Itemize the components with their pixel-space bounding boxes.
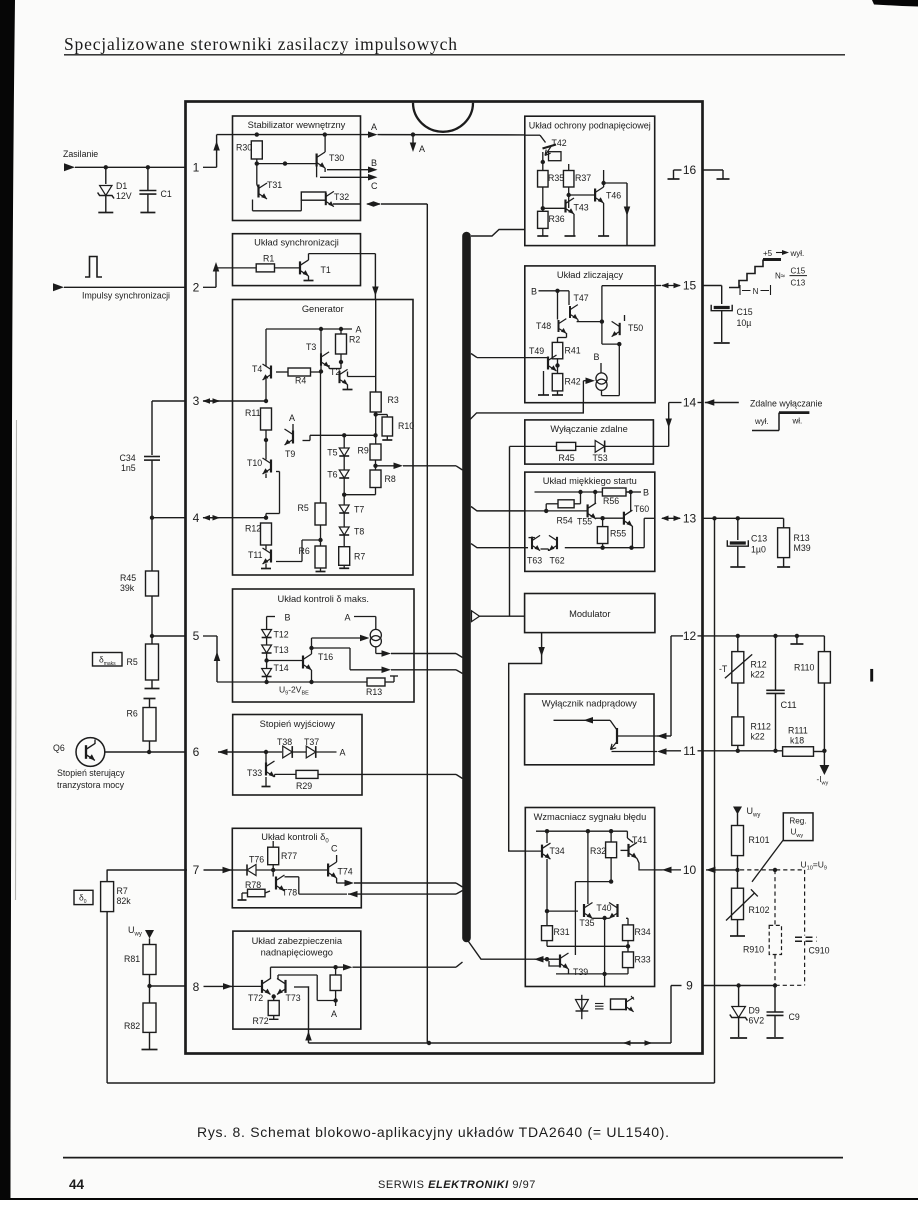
svg-text:T5: T5 [327, 448, 337, 458]
svg-text:R42: R42 [565, 377, 581, 387]
svg-text:wył.: wył. [790, 249, 805, 258]
svg-text:Generator: Generator [302, 304, 344, 314]
svg-text:Specjalizowane sterowniki zasi: Specjalizowane sterowniki zasilaczy impu… [64, 34, 458, 54]
svg-text:T12: T12 [274, 630, 289, 640]
svg-text:R30: R30 [236, 143, 252, 153]
svg-text:Układ ochrony podnapięciowej: Układ ochrony podnapięciowej [529, 121, 651, 131]
svg-text:A: A [371, 122, 377, 132]
svg-text:Wyłączanie zdalne: Wyłączanie zdalne [550, 424, 627, 434]
svg-text:T76: T76 [249, 855, 264, 865]
svg-text:R78: R78 [245, 880, 261, 890]
svg-text:T63: T63 [527, 556, 542, 566]
svg-text:R110: R110 [794, 663, 814, 673]
svg-text:R112: R112 [751, 722, 771, 732]
svg-text:T49: T49 [529, 346, 544, 356]
svg-text:12: 12 [683, 629, 697, 643]
svg-text:D1: D1 [116, 181, 127, 191]
svg-text:R41: R41 [565, 346, 581, 356]
svg-text:6V2: 6V2 [749, 1016, 765, 1026]
svg-text:C910: C910 [809, 946, 830, 956]
svg-text:R102: R102 [749, 905, 770, 915]
svg-text:T4: T4 [252, 364, 262, 374]
svg-text:k22: k22 [751, 732, 765, 742]
svg-text:nadnapięciowego: nadnapięciowego [261, 948, 333, 958]
svg-text:R12: R12 [751, 660, 767, 670]
svg-text:SERWIS ELEKTRONIKI 9/97: SERWIS ELEKTRONIKI 9/97 [378, 1179, 536, 1191]
svg-text:R29: R29 [296, 781, 312, 791]
svg-text:B: B [371, 158, 377, 168]
svg-text:R7: R7 [354, 552, 365, 562]
svg-text:R13: R13 [794, 533, 810, 543]
svg-text:D9: D9 [749, 1006, 760, 1016]
svg-text:14: 14 [683, 396, 697, 410]
svg-text:B: B [594, 352, 600, 362]
svg-text:R32: R32 [590, 846, 606, 856]
svg-text:R5: R5 [298, 503, 309, 513]
svg-text:R7: R7 [117, 886, 128, 896]
svg-text:T9: T9 [285, 449, 295, 459]
svg-text:tranzystora mocy: tranzystora mocy [57, 780, 125, 790]
svg-text:T16: T16 [318, 652, 333, 662]
svg-text:M39: M39 [794, 543, 811, 553]
svg-text:R2: R2 [349, 335, 360, 345]
svg-text:A: A [356, 325, 362, 335]
svg-text:R5: R5 [127, 657, 138, 667]
svg-text:T74: T74 [338, 867, 353, 877]
svg-text:T39: T39 [573, 967, 588, 977]
svg-text:T33: T33 [247, 768, 262, 778]
svg-text:N≈: N≈ [775, 272, 786, 281]
svg-text:6: 6 [193, 745, 200, 759]
svg-text:A: A [340, 748, 346, 758]
svg-text:T7: T7 [354, 505, 364, 515]
svg-text:R8: R8 [385, 474, 396, 484]
svg-text:R6: R6 [299, 546, 310, 556]
svg-text:R6: R6 [127, 709, 138, 719]
svg-text:R35: R35 [548, 173, 564, 183]
svg-text:T73: T73 [286, 993, 301, 1003]
svg-text:R82: R82 [124, 1021, 140, 1031]
svg-text:R111: R111 [788, 726, 808, 736]
svg-text:4: 4 [193, 511, 200, 525]
svg-text:T72: T72 [248, 993, 263, 1003]
svg-text:B: B [643, 488, 649, 498]
svg-text:Układ synchronizacji: Układ synchronizacji [254, 238, 339, 248]
svg-text:8: 8 [193, 980, 200, 994]
svg-text:wył.: wył. [754, 417, 769, 426]
svg-text:T1: T1 [321, 265, 331, 275]
svg-text:Impulsy synchronizacji: Impulsy synchronizacji [82, 291, 170, 301]
svg-text:R3: R3 [388, 395, 399, 405]
svg-text:T48: T48 [536, 321, 551, 331]
svg-text:+5: +5 [763, 249, 773, 258]
svg-text:A: A [419, 144, 425, 154]
svg-text:82k: 82k [117, 896, 132, 906]
svg-text:C9: C9 [789, 1012, 800, 1022]
svg-text:-T: -T [719, 664, 728, 674]
svg-text:T11: T11 [248, 550, 263, 560]
svg-text:Układ miękkiego startu: Układ miękkiego startu [543, 476, 637, 486]
svg-text:C: C [371, 181, 378, 191]
svg-text:10: 10 [683, 863, 697, 877]
svg-text:C15: C15 [737, 307, 753, 317]
svg-text:R54: R54 [557, 516, 573, 526]
svg-text:T8: T8 [354, 527, 364, 537]
svg-text:C1: C1 [161, 189, 172, 199]
svg-text:R72: R72 [253, 1016, 269, 1026]
svg-text:R77: R77 [281, 851, 297, 861]
svg-text:R37: R37 [575, 173, 591, 183]
svg-text:T34: T34 [550, 846, 565, 856]
svg-text:A: A [345, 613, 351, 623]
svg-text:11: 11 [683, 744, 696, 758]
svg-text:Układ zliczający: Układ zliczający [557, 270, 623, 280]
svg-text:T2: T2 [330, 367, 340, 377]
svg-text:12V: 12V [116, 191, 132, 201]
svg-text:Układ kontroli δ maks.: Układ kontroli δ maks. [278, 594, 369, 604]
svg-text:Wzmacniacz sygnału błędu: Wzmacniacz sygnału błędu [534, 812, 647, 822]
svg-text:R33: R33 [635, 955, 651, 965]
svg-text:T35: T35 [579, 918, 594, 928]
svg-text:C13: C13 [791, 279, 806, 288]
svg-text:R4: R4 [295, 376, 306, 386]
svg-text:15: 15 [683, 279, 697, 293]
svg-text:R12: R12 [245, 524, 261, 534]
svg-text:Stopień sterujący: Stopień sterujący [57, 768, 125, 778]
svg-text:C11: C11 [781, 700, 797, 710]
svg-text:T14: T14 [274, 663, 289, 673]
svg-text:T50: T50 [628, 323, 643, 333]
svg-text:13: 13 [683, 512, 697, 526]
svg-text:5: 5 [193, 629, 200, 643]
svg-text:T30: T30 [329, 153, 344, 163]
svg-text:N: N [753, 287, 759, 296]
svg-text:C34: C34 [120, 453, 136, 463]
svg-text:44: 44 [69, 1177, 85, 1192]
svg-text:Modulator: Modulator [569, 609, 610, 619]
svg-text:T13: T13 [274, 645, 289, 655]
svg-text:k18: k18 [790, 736, 804, 746]
svg-text:R45: R45 [559, 453, 575, 463]
svg-text:R36: R36 [549, 214, 565, 224]
svg-text:3: 3 [193, 394, 200, 408]
svg-text:Zdalne wyłączanie: Zdalne wyłączanie [750, 399, 822, 409]
svg-text:T60: T60 [634, 504, 649, 514]
svg-text:R10: R10 [398, 421, 414, 431]
svg-text:T55: T55 [577, 517, 592, 527]
svg-text:1n5: 1n5 [121, 463, 136, 473]
svg-text:R81: R81 [124, 954, 140, 964]
svg-text:R13: R13 [366, 687, 382, 697]
svg-text:T10: T10 [247, 458, 262, 468]
svg-text:T78: T78 [282, 888, 297, 898]
svg-text:39k: 39k [120, 583, 135, 593]
svg-text:Wyłącznik nadprądowy: Wyłącznik nadprądowy [542, 699, 637, 709]
svg-text:T37: T37 [304, 737, 319, 747]
svg-text:2: 2 [193, 281, 200, 295]
svg-text:wł.: wł. [792, 417, 803, 426]
svg-text:R1: R1 [263, 254, 274, 264]
svg-text:Rys. 8. Schemat blokowo-aplik: Rys. 8. Schemat blokowo-aplikacyjny ukła… [197, 1124, 670, 1140]
svg-text:1: 1 [193, 161, 200, 175]
svg-text:T42: T42 [552, 138, 567, 148]
svg-text:T62: T62 [550, 556, 565, 566]
svg-text:Zasilanie: Zasilanie [63, 149, 98, 159]
svg-text:Q6: Q6 [53, 743, 65, 753]
svg-text:Reg.: Reg. [789, 817, 806, 826]
svg-text:R11: R11 [245, 408, 261, 418]
svg-text:T47: T47 [574, 293, 589, 303]
svg-text:T38: T38 [277, 737, 292, 747]
svg-text:R55: R55 [610, 529, 626, 539]
svg-text:16: 16 [683, 163, 697, 177]
svg-text:R31: R31 [554, 927, 570, 937]
svg-text:C15: C15 [791, 267, 806, 276]
svg-text:B: B [531, 287, 537, 297]
svg-text:Układ zabezpieczenia: Układ zabezpieczenia [252, 936, 343, 946]
svg-text:10µ: 10µ [737, 318, 752, 328]
svg-text:Stopień wyjściowy: Stopień wyjściowy [260, 719, 336, 729]
svg-text:R101: R101 [749, 835, 770, 845]
svg-text:R9: R9 [358, 446, 369, 456]
svg-text:A: A [289, 413, 295, 423]
svg-text:T3: T3 [306, 342, 316, 352]
svg-text:T32: T32 [334, 192, 349, 202]
svg-text:R56: R56 [603, 496, 619, 506]
svg-text:T46: T46 [606, 191, 621, 201]
svg-text:1µ0: 1µ0 [751, 545, 766, 555]
svg-text:Stabilizator wewnętrzny: Stabilizator wewnętrzny [248, 120, 346, 130]
svg-text:T31: T31 [267, 180, 282, 190]
svg-text:R45: R45 [120, 573, 136, 583]
svg-text:9: 9 [686, 979, 693, 993]
svg-text:C: C [331, 844, 338, 854]
svg-text:R34: R34 [635, 927, 651, 937]
svg-text:T41: T41 [632, 835, 647, 845]
svg-text:R910: R910 [743, 945, 764, 955]
svg-text:A: A [331, 1009, 337, 1019]
svg-text:T53: T53 [593, 453, 608, 463]
svg-text:T43: T43 [574, 203, 589, 213]
svg-text:T6: T6 [327, 470, 337, 480]
svg-text:k22: k22 [751, 670, 765, 680]
svg-text:B: B [285, 613, 291, 623]
svg-text:7: 7 [193, 863, 200, 877]
svg-text:T40: T40 [596, 903, 611, 913]
svg-text:C13: C13 [751, 534, 767, 544]
